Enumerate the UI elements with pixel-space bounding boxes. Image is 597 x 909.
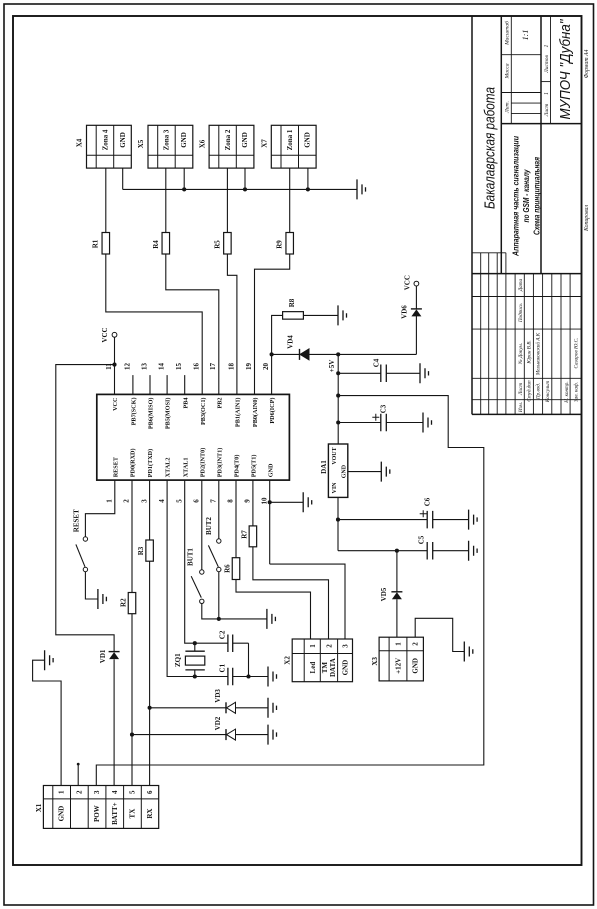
wire R5 to pin18: [227, 254, 237, 394]
title doc line 2: [521, 169, 531, 223]
X1 pin 1 number: [58, 790, 66, 794]
svg-text:Сазаров Ю.С.: Сазаров Ю.С.: [574, 338, 580, 369]
wire pin6 to BUT1: [201, 480, 203, 570]
capacitor C2: [228, 634, 233, 652]
wire R8 to ground: [303, 314, 338, 316]
X1 pin POW label: [93, 805, 101, 822]
X2 pin 2 number: [326, 644, 334, 648]
svg-text:PB5(MOSI): PB5(MOSI): [165, 398, 172, 430]
IC pin 4 label XTAL2: [165, 457, 172, 477]
diode VD3: [226, 702, 236, 713]
svg-text:3: 3: [140, 499, 148, 503]
IC pin 15 label PB4: [182, 398, 189, 409]
label RESET: [72, 509, 80, 532]
title row Н.контр: [564, 381, 570, 403]
connector X6 pin Zona 2 label: [224, 129, 232, 150]
wire to crystal ground: [249, 676, 269, 678]
X1 pin 4 number: [111, 790, 119, 794]
svg-text:C3: C3: [380, 404, 388, 413]
svg-text:Дата: Дата: [518, 278, 524, 292]
svg-text:BATT+: BATT+: [111, 802, 119, 825]
svg-text:8: 8: [227, 499, 235, 503]
svg-text:11: 11: [105, 363, 113, 370]
junction VD5: [395, 549, 399, 553]
title cell Лист: [544, 104, 550, 118]
wire X7-GND drop: [307, 168, 309, 189]
svg-text:PD3(INT1): PD3(INT1): [216, 448, 223, 478]
wire +5V to DA1 VOUT: [337, 354, 339, 444]
IC pin 14 stub wire: [166, 375, 168, 394]
wire pin20 to R8: [272, 315, 283, 394]
wire VIN to C5: [338, 550, 469, 552]
X3 pin GND label: [412, 658, 420, 674]
title block grid: [472, 16, 582, 414]
IC pin 3 label PD1(TXD): [147, 449, 154, 478]
label R9: [276, 240, 284, 249]
svg-text:PD0(RXD): PD0(RXD): [130, 448, 137, 477]
svg-text:20: 20: [262, 363, 270, 371]
connector X3 box: [379, 637, 423, 681]
svg-text:X6: X6: [199, 139, 207, 148]
wire pin1 to RESET: [85, 480, 114, 537]
svg-text:VCC: VCC: [112, 398, 119, 411]
wire VD1 to X1-4: [113, 659, 115, 785]
connector X7 box: [271, 125, 316, 168]
svg-text:5: 5: [175, 499, 183, 503]
DA1 pin VOUT label: [332, 447, 338, 464]
label ZQ1: [174, 653, 182, 667]
resistor R6: [232, 558, 240, 580]
wire R7 to X2 TM DATA: [253, 547, 329, 639]
svg-text:13: 13: [140, 363, 148, 371]
svg-text:R8: R8: [288, 298, 296, 307]
wire R6 to X2 Led: [236, 580, 311, 640]
svg-text:VD5: VD5: [380, 587, 388, 601]
label BUT1: [186, 548, 194, 566]
svg-text:1: 1: [106, 499, 114, 503]
svg-text:1: 1: [544, 92, 550, 95]
IC pin 20 label PD6(ICP): [269, 398, 276, 424]
wire GND to symbol: [270, 501, 304, 503]
svg-text:BUT2: BUT2: [205, 517, 213, 535]
X1 pin GND label: [58, 806, 66, 822]
wire VD5 to X3: [396, 551, 398, 638]
IC pin 7 number: [210, 499, 218, 503]
IC pin 1 number: [106, 499, 114, 503]
IC pin 16 label PB3(OC1): [200, 398, 207, 426]
IC pin 11 label VCC: [112, 398, 119, 411]
wire X5-GND drop: [183, 168, 185, 189]
IC pin 20 number: [262, 363, 270, 371]
svg-text:R3: R3: [137, 546, 145, 555]
svg-text:Бакалаврская работа: Бакалаврская работа: [482, 87, 499, 209]
svg-text:R7: R7: [240, 530, 248, 539]
svg-text:GND: GND: [241, 132, 249, 148]
svg-text:GND: GND: [180, 132, 188, 148]
wire C3 branch: [338, 422, 423, 424]
label VD2: [214, 716, 222, 730]
IC DD1 box: [97, 394, 290, 480]
svg-text:POW: POW: [93, 805, 101, 822]
label VD1: [99, 649, 107, 663]
svg-text:1: 1: [395, 642, 403, 646]
svg-text:Изм.: Изм.: [518, 402, 524, 413]
label +5V: [328, 360, 336, 373]
connector X1 box: [43, 786, 158, 829]
terminal VCC: [112, 332, 117, 337]
svg-text:+5V: +5V: [328, 360, 336, 373]
connector X5 pin Zona 3 label: [163, 129, 171, 150]
connector X2 label: [284, 656, 292, 665]
wire R1 to pin16: [106, 254, 202, 394]
svg-text:по GSM - каналу: по GSM - каналу: [521, 169, 531, 223]
IC pin 14 label PB5(MOSI): [165, 398, 172, 430]
junction X7-GND: [306, 187, 310, 191]
wire pin3 to R3: [149, 480, 151, 540]
title value Лист 1: [544, 92, 550, 95]
svg-text:Студ.дип: Студ.дип: [526, 380, 533, 402]
capacitor C1: [228, 668, 233, 686]
svg-text:C1: C1: [218, 663, 226, 672]
svg-text:6: 6: [146, 790, 154, 794]
svg-text:C6: C6: [424, 497, 432, 506]
terminal VCC top: [414, 281, 419, 286]
junction C6 branch: [336, 518, 340, 522]
IC pin 18 number: [227, 363, 235, 371]
svg-text:RX: RX: [146, 809, 154, 819]
IC pin 15 stub wire: [184, 375, 186, 394]
DA1 pin VIN label: [332, 482, 338, 494]
IC pin 5 label XTAL1: [182, 457, 189, 477]
svg-text:X7: X7: [260, 139, 268, 148]
title value 1:1: [521, 30, 530, 41]
wire R3 to X1 RX: [149, 561, 151, 785]
label C5: [418, 535, 426, 544]
svg-text:R1: R1: [92, 239, 100, 248]
margin text Формат А4: [583, 49, 590, 78]
svg-text:X4: X4: [76, 138, 84, 147]
wire pin4 XTAL2 line: [167, 480, 248, 676]
svg-text:PB6(MISO): PB6(MISO): [148, 398, 155, 430]
label DA1: [320, 460, 328, 474]
label R7: [240, 530, 248, 539]
connector X5 label: [137, 139, 145, 148]
svg-text:Подпись: Подпись: [517, 303, 524, 323]
svg-text:X5: X5: [137, 139, 145, 148]
connector X4 box: [87, 125, 132, 168]
junction VCC rail: [112, 363, 116, 367]
ground BUT: [267, 609, 276, 629]
label R2: [119, 598, 127, 607]
svg-text:PB7(SCK): PB7(SCK): [131, 398, 138, 426]
wire TX to VD2: [132, 734, 268, 736]
wire VD6 branch: [415, 286, 417, 354]
connector X4 pin Zona 4 label: [101, 129, 109, 150]
IC pin 19 number: [245, 363, 253, 371]
junction ZQ1 top: [193, 641, 197, 645]
ground C4: [420, 363, 429, 383]
ground pin10: [303, 492, 312, 512]
svg-text:2: 2: [326, 644, 334, 648]
wire C2 to C1 join: [248, 643, 250, 676]
X1 pin2 stub wire: [77, 764, 79, 785]
wire BUT1 to ground bus: [202, 604, 267, 619]
svg-text:6: 6: [193, 499, 201, 503]
diode VD1: [109, 652, 120, 660]
svg-text:3: 3: [342, 644, 350, 648]
X3 pin 1 number: [395, 642, 403, 646]
svg-text:PB1(AIN1): PB1(AIN1): [235, 398, 242, 428]
svg-text:GND: GND: [267, 463, 274, 477]
label C1: [218, 663, 226, 672]
ground R8: [338, 305, 347, 325]
title row Консульт: [545, 381, 551, 403]
svg-text:PD6(ICP): PD6(ICP): [269, 398, 276, 424]
svg-text:Zona 1: Zona 1: [286, 129, 294, 150]
X1 pin BATT+ label: [111, 802, 119, 825]
wire pin9 to R7: [252, 480, 254, 526]
svg-text:RESET: RESET: [72, 509, 80, 532]
svg-text:C5: C5: [418, 535, 426, 544]
wire X3 GND to ground: [415, 618, 464, 651]
svg-text:XTAL2: XTAL2: [165, 457, 172, 477]
svg-text:2: 2: [412, 642, 420, 646]
junction X6-GND: [243, 187, 247, 191]
svg-text:2: 2: [123, 499, 131, 503]
wire DA1 GND: [348, 471, 382, 473]
svg-text:DA1: DA1: [320, 460, 328, 474]
diode VD5: [391, 592, 402, 600]
label R1: [92, 239, 100, 248]
IC pin 8 label PD4(T0): [234, 455, 241, 478]
label R4: [152, 240, 160, 249]
svg-text:+12V: +12V: [395, 658, 403, 674]
IC pin 11 number: [105, 363, 113, 370]
IC pin 17 number: [209, 363, 217, 371]
svg-text:18: 18: [227, 363, 235, 371]
svg-text:XTAL1: XTAL1: [182, 457, 189, 477]
title header Подпись: [517, 303, 524, 323]
capacitor C6: [427, 511, 433, 528]
svg-text:GND: GND: [119, 132, 127, 148]
svg-text:R6: R6: [223, 564, 231, 573]
title header Дата: [518, 278, 524, 292]
resistor R9: [286, 233, 294, 255]
diode VD2: [226, 729, 236, 740]
ground crystal: [268, 667, 277, 687]
svg-text:Н. контр.: Н. контр.: [564, 381, 570, 403]
connector X4 label: [76, 138, 84, 147]
svg-text:PD4(T0): PD4(T0): [234, 455, 241, 478]
junction C3 branch: [336, 420, 340, 424]
svg-text:1: 1: [544, 44, 550, 47]
resistor R8: [283, 312, 304, 320]
wire pin5 XTAL1 line: [185, 480, 249, 643]
junction VD2: [130, 733, 134, 737]
IC pin 5 number: [175, 499, 183, 503]
svg-text:VD6: VD6: [400, 305, 408, 319]
svg-text:Аппаратная часть сигнализации: Аппаратная часть сигнализации: [511, 135, 521, 256]
svg-text:Led: Led: [309, 662, 317, 674]
svg-text:7: 7: [210, 499, 218, 503]
title header Лист: [518, 383, 524, 396]
capacitor C4: [381, 365, 387, 383]
junction pin20 +5V: [270, 352, 274, 356]
svg-text:GND: GND: [58, 806, 66, 822]
wire BUT2 down: [218, 572, 220, 619]
svg-text:C4: C4: [373, 358, 381, 367]
title cell Листов: [544, 55, 550, 74]
IC pin 16 number: [193, 363, 201, 371]
resistor R5: [224, 233, 232, 255]
IC pin 8 number: [227, 499, 235, 503]
svg-text:Пр.вод.: Пр.вод.: [535, 383, 542, 400]
label VD5: [380, 587, 388, 601]
svg-text:RESET: RESET: [112, 456, 119, 477]
wire pin7 to BUT2: [218, 480, 220, 539]
label R5: [214, 240, 222, 249]
regulator DA1 box: [328, 444, 347, 497]
node X1 pin2 stub: [77, 763, 80, 766]
svg-text:Zona 3: Zona 3: [163, 129, 171, 150]
label C2: [218, 630, 226, 639]
svg-text:1:1: 1:1: [521, 30, 530, 41]
resistor R4: [162, 233, 170, 255]
svg-text:Лист: Лист: [518, 383, 524, 396]
wire R9 to pin19: [255, 254, 290, 394]
junction X5-GND: [182, 187, 186, 191]
ground C3: [423, 413, 432, 433]
ground bus: [357, 179, 366, 199]
wire VCC rail to VD1: [56, 365, 115, 652]
X3 pin +12V label: [395, 658, 403, 674]
svg-text:ZQ1: ZQ1: [174, 653, 182, 667]
wire pin2 to R2: [131, 480, 133, 592]
ground C5: [469, 541, 478, 561]
junction crystal ground: [246, 674, 250, 678]
svg-text:X1: X1: [35, 803, 43, 812]
label VD3: [214, 689, 222, 703]
resistor R2: [128, 593, 136, 614]
IC pin 14 number: [158, 363, 166, 371]
svg-text:5: 5: [129, 790, 137, 794]
diode VD6: [411, 309, 422, 317]
X2 pin TM DATA label: [321, 658, 337, 677]
X1 pin 2 number: [75, 790, 83, 794]
connector X5 pin GND label: [180, 132, 188, 148]
switch BUT1: [191, 570, 204, 604]
IC pin 2 label PD0(RXD): [130, 448, 137, 477]
svg-text:1: 1: [58, 790, 66, 794]
IC pin 6 label PD2(INT0): [199, 448, 206, 478]
title doc line 3: [532, 157, 542, 235]
svg-text:TM: TM: [321, 662, 329, 674]
svg-text:R5: R5: [214, 240, 222, 249]
svg-text:VOUT: VOUT: [332, 447, 338, 464]
svg-text:14: 14: [158, 363, 166, 371]
svg-text:GND: GND: [342, 660, 350, 676]
svg-text:17: 17: [209, 363, 217, 371]
wire +5V to X1 POW: [96, 396, 484, 786]
title value Листов 1: [544, 44, 550, 47]
label C3: [380, 404, 388, 413]
connector X6 box: [209, 125, 254, 168]
resistor R3: [146, 540, 154, 561]
title cell Масса: [505, 63, 511, 79]
title row Зав.каф: [573, 382, 580, 402]
connector X6 pin GND label: [241, 132, 249, 148]
svg-text:PB4: PB4: [182, 398, 189, 409]
connector X7 pin Zona 1 label: [286, 129, 294, 150]
svg-text:Лит.: Лит.: [505, 101, 511, 114]
crystal ZQ1: [185, 643, 204, 676]
label R3: [137, 546, 145, 555]
connector X5 box: [148, 125, 193, 168]
svg-text:VD4: VD4: [287, 335, 295, 349]
ground X1: [45, 650, 54, 670]
capacitor C3: [381, 414, 387, 432]
connector X7 pin GND label: [303, 132, 311, 148]
title cell Лит: [505, 101, 511, 114]
label VD4: [287, 335, 295, 349]
svg-text:№ Докум.: № Докум.: [518, 343, 524, 365]
svg-text:12: 12: [123, 363, 131, 371]
svg-text:VCC: VCC: [101, 327, 109, 342]
DA1 pin GND label: [341, 464, 347, 478]
svg-text:VD2: VD2: [214, 716, 222, 730]
X1 pin RX label: [146, 809, 154, 819]
svg-text:Формат А4: Формат А4: [583, 49, 590, 78]
ground X3: [464, 642, 473, 662]
IC pin 18 label PB1(AIN1): [235, 398, 242, 428]
svg-text:PB3(OC1): PB3(OC1): [200, 398, 207, 426]
svg-text:PD1(TXD): PD1(TXD): [147, 449, 154, 478]
wire X5-Zona3 to R4: [165, 168, 167, 232]
ground VD2: [268, 725, 277, 745]
ground C6: [469, 510, 478, 530]
svg-text:МУПОЧ "Дубна": МУПОЧ "Дубна": [557, 19, 574, 120]
svg-text:VD3: VD3: [214, 689, 222, 703]
X2 pin Led label: [309, 662, 317, 674]
svg-text:R4: R4: [152, 240, 160, 249]
svg-text:10: 10: [260, 497, 268, 505]
wire pin8 to R6: [235, 480, 237, 558]
switch BUT2: [208, 539, 221, 572]
wire R2 to X1 TX: [131, 614, 133, 786]
IC pin 6 number: [193, 499, 201, 503]
svg-text:Консульт: Консульт: [545, 381, 551, 403]
IC pin 12 number: [123, 363, 131, 371]
capacitor C3 polarity: [372, 414, 379, 421]
ground VD3: [268, 698, 277, 718]
svg-text:PB0(AIN0): PB0(AIN0): [252, 398, 259, 428]
IC pin 15 number: [175, 363, 183, 371]
wire GND bus: [123, 188, 357, 190]
label BUT2: [205, 517, 213, 535]
connector X6 label: [199, 139, 207, 148]
connector X4 pin GND label: [119, 132, 127, 148]
wire R4 to pin17: [166, 254, 219, 394]
svg-text:R9: R9: [276, 240, 284, 249]
svg-text:3: 3: [93, 790, 101, 794]
svg-text:Лист: Лист: [544, 104, 550, 118]
IC pin 13 stub wire: [149, 375, 151, 394]
connector X2 box: [292, 639, 352, 682]
title row Пр.вод: [535, 383, 542, 400]
IC pin 12 stub wire: [132, 375, 134, 394]
IC pin 17 label PB2: [216, 398, 223, 409]
connector X7 label: [260, 139, 268, 148]
